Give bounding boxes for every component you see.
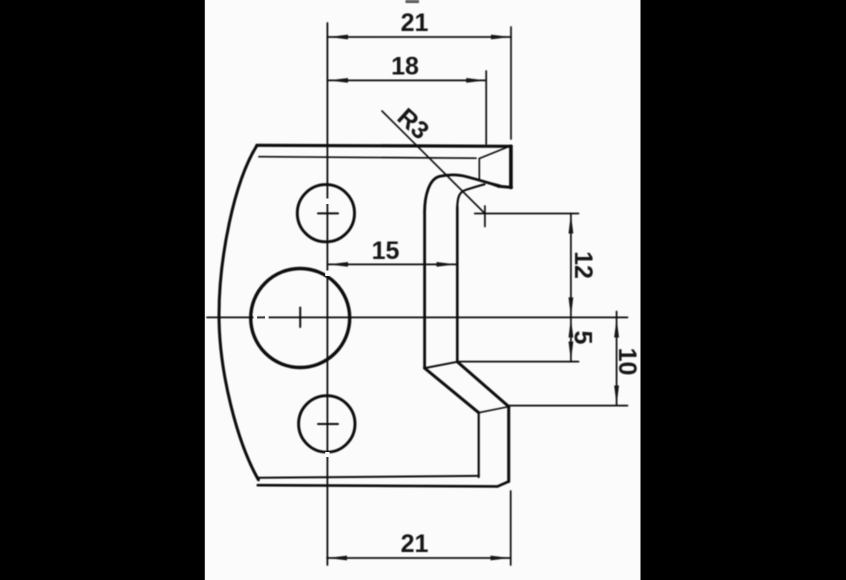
- dimension 15 line: [328, 263, 457, 265]
- step outer diagonal: [425, 368, 479, 413]
- hole small bottom center tick: [318, 423, 338, 425]
- hole big circle: [251, 269, 350, 368]
- extension line at R3 center for 12: [475, 213, 579, 215]
- extension line right of 18: [485, 71, 487, 144]
- svg-text:15: 15: [372, 237, 400, 265]
- centerline chain gaps: [254, 199, 330, 458]
- wire horizontal centerline: [207, 316, 628, 318]
- extension line bottom of 5: [459, 361, 579, 363]
- extension line bottom of 10: [509, 405, 628, 407]
- lower inner vertical edge: [478, 413, 480, 477]
- beak outer arch curve: [425, 175, 499, 212]
- part top edge: [257, 145, 511, 146]
- svg-text:12: 12: [569, 251, 597, 279]
- R3 leader line: [382, 111, 485, 214]
- dimension 21 top line: [328, 36, 511, 38]
- dimension line 10 vertical: [616, 312, 618, 406]
- dimension 18 line: [328, 79, 486, 81]
- groove right wall: [456, 207, 459, 362]
- dimension 10 arrows: [614, 318, 619, 338]
- dimension 15 arrows: [329, 262, 349, 267]
- part right tab edge: [509, 146, 513, 187]
- extension line right of 21 top: [510, 27, 512, 139]
- svg-text:21: 21: [401, 530, 429, 558]
- R3 center cross tick: [484, 206, 486, 227]
- white scan area: [205, 0, 641, 580]
- bottom edge upper line: [259, 476, 479, 478]
- part top edge inner thin line: [259, 157, 476, 159]
- recess trapezoid lower edge: [479, 180, 500, 185]
- dimension 21 top arrows: [329, 35, 349, 40]
- scan smudge top edge: [406, 0, 420, 3]
- step inner diagonal: [457, 362, 509, 407]
- beak inner fillet curve R3: [457, 184, 484, 208]
- dimension line 12 and 5 vertical: [570, 214, 572, 362]
- part lower right edge: [507, 407, 510, 482]
- svg-text:5: 5: [569, 331, 597, 345]
- corner chamfer bottom right: [498, 482, 509, 487]
- dimension 18 arrows: [329, 78, 349, 83]
- dimension 21 bottom line: [327, 557, 511, 559]
- part left arc edge: [219, 146, 258, 480]
- step bottom connector: [479, 407, 509, 413]
- groove left wall: [423, 212, 426, 368]
- groove bottom connector: [425, 362, 458, 368]
- svg-text:10: 10: [613, 348, 641, 376]
- dimension 5 arrows: [569, 318, 574, 338]
- dimension 21 bottom arrows: [328, 556, 348, 561]
- hole big center tick: [299, 308, 301, 328]
- bottom edge lower line: [258, 485, 498, 486]
- hole small top center tick: [318, 212, 338, 214]
- recess trapezoid upper edge: [479, 148, 506, 159]
- svg-text:18: 18: [391, 53, 419, 81]
- extension line right bottom 21: [510, 491, 512, 565]
- recess trapezoid left side: [478, 159, 480, 181]
- hole small top circle: [297, 185, 354, 242]
- dimension 12 arrows: [569, 214, 574, 234]
- svg-text:21: 21: [401, 9, 429, 37]
- wire vertical centerline through holes: [326, 23, 328, 565]
- hole small bottom circle: [299, 396, 355, 452]
- tab bottom edge: [498, 186, 511, 187]
